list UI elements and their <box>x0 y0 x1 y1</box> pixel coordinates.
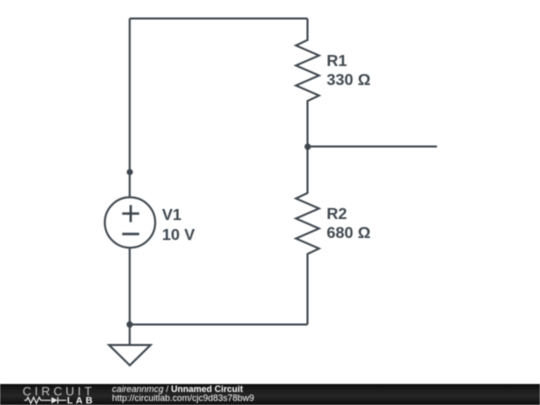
svg-text:LAB: LAB <box>67 396 96 405</box>
